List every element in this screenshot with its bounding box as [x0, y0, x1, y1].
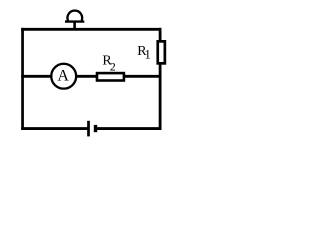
- wire: bottom right segment: [96, 127, 162, 130]
- electric bell: dome: [67, 11, 82, 21]
- battery cell: short (negative) plate: [94, 125, 97, 132]
- wire: top horizontal: [21, 28, 161, 31]
- electric bell: stem wire: [73, 22, 76, 29]
- svg-text:2: 2: [110, 60, 116, 74]
- svg-text:A: A: [57, 67, 69, 84]
- wire: bottom left segment: [21, 127, 88, 130]
- svg-text:1: 1: [144, 46, 151, 61]
- battery cell: long (positive) plate: [87, 121, 90, 137]
- resistor R1: [158, 41, 165, 63]
- wire: middle horizontal: [21, 75, 160, 78]
- electric bell: base: [65, 20, 84, 22]
- resistor R2: [97, 73, 124, 80]
- wire: right vertical: [159, 28, 162, 130]
- wire: left vertical: [21, 28, 24, 130]
- ammeter A: circle: [51, 64, 76, 89]
